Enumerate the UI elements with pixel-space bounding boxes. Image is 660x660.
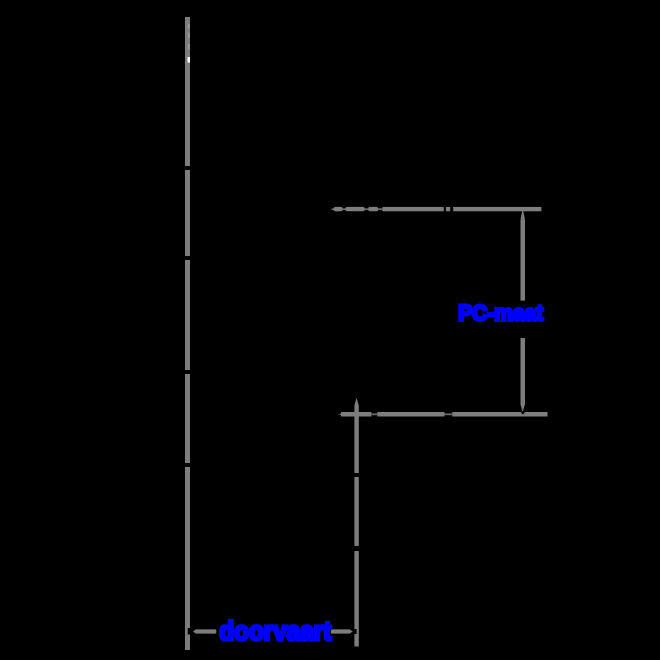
light dash overlay 2 on left extension line <box>188 33 190 39</box>
wire: left extension line segment 3 <box>185 260 190 370</box>
top reference line long dash 2 <box>383 207 444 211</box>
middle reference line dash 2a <box>377 412 444 417</box>
middle reference line thin connector 1 <box>371 413 377 415</box>
top reference line dash 1 <box>346 207 365 211</box>
light dash overlay 3 on left extension line <box>188 44 190 50</box>
dimension line PC (vertical, x=522.8): top arrow tip <box>521 209 526 220</box>
wire: middle reference line (y=414): left arrow tip <box>339 412 347 417</box>
wire: left extension line segment 2 <box>185 170 190 256</box>
top reference line thin connector 2 <box>365 208 369 210</box>
dimension line PC bottom arrow tip <box>521 405 526 412</box>
bottom dimension line: left arrow tip (points left) <box>193 630 196 634</box>
dimension line PC upper body <box>521 219 526 300</box>
middle reference line thin connector 2 <box>445 413 453 415</box>
svg-text:PC-maat: PC-maat <box>458 301 544 326</box>
right extension line segment 2 <box>354 477 358 546</box>
white dash overlay on left extension line <box>188 57 191 63</box>
bottom dimension line left body <box>195 629 216 633</box>
middle reference line dash 2 <box>452 412 547 417</box>
top reference line thin connector 3 <box>378 208 383 210</box>
top reference line dot 3 <box>446 207 450 211</box>
bottom dimension line right body <box>331 629 351 633</box>
wire: top reference line (dash-dot, y=209): left arrow tip <box>331 207 339 212</box>
wire: left extension line segment 4 <box>185 374 190 463</box>
top reference line long dash 3 <box>453 207 541 211</box>
bottom dimension line: right arrow tip (points right) <box>350 630 353 634</box>
middle reference line dash 1 <box>341 412 371 417</box>
notch in middle reference line at PC arrow <box>521 412 525 415</box>
wire: right extension line (vertical, x=356.6): top arrow tip <box>354 398 358 406</box>
top reference line thin connector 1 <box>343 208 347 210</box>
right extension line segment 1 <box>354 406 358 474</box>
top reference line dot 2 <box>368 207 378 211</box>
notch in right extension line at arrow of bottom dimension <box>354 629 356 634</box>
light dash overlay 1 on left extension line <box>188 24 190 29</box>
wire: left extension line segment 5 <box>185 467 190 650</box>
right extension line segment 3 <box>354 551 358 647</box>
wire: long left extension line (vertical, x=187.5) segment 1 <box>185 17 190 166</box>
notch in left extension line at arrow of bottom dimension <box>188 628 190 635</box>
svg-text:doorvaart: doorvaart <box>219 616 331 646</box>
dimension line PC lower body <box>521 338 526 405</box>
top reference line dot 1 <box>334 207 343 211</box>
